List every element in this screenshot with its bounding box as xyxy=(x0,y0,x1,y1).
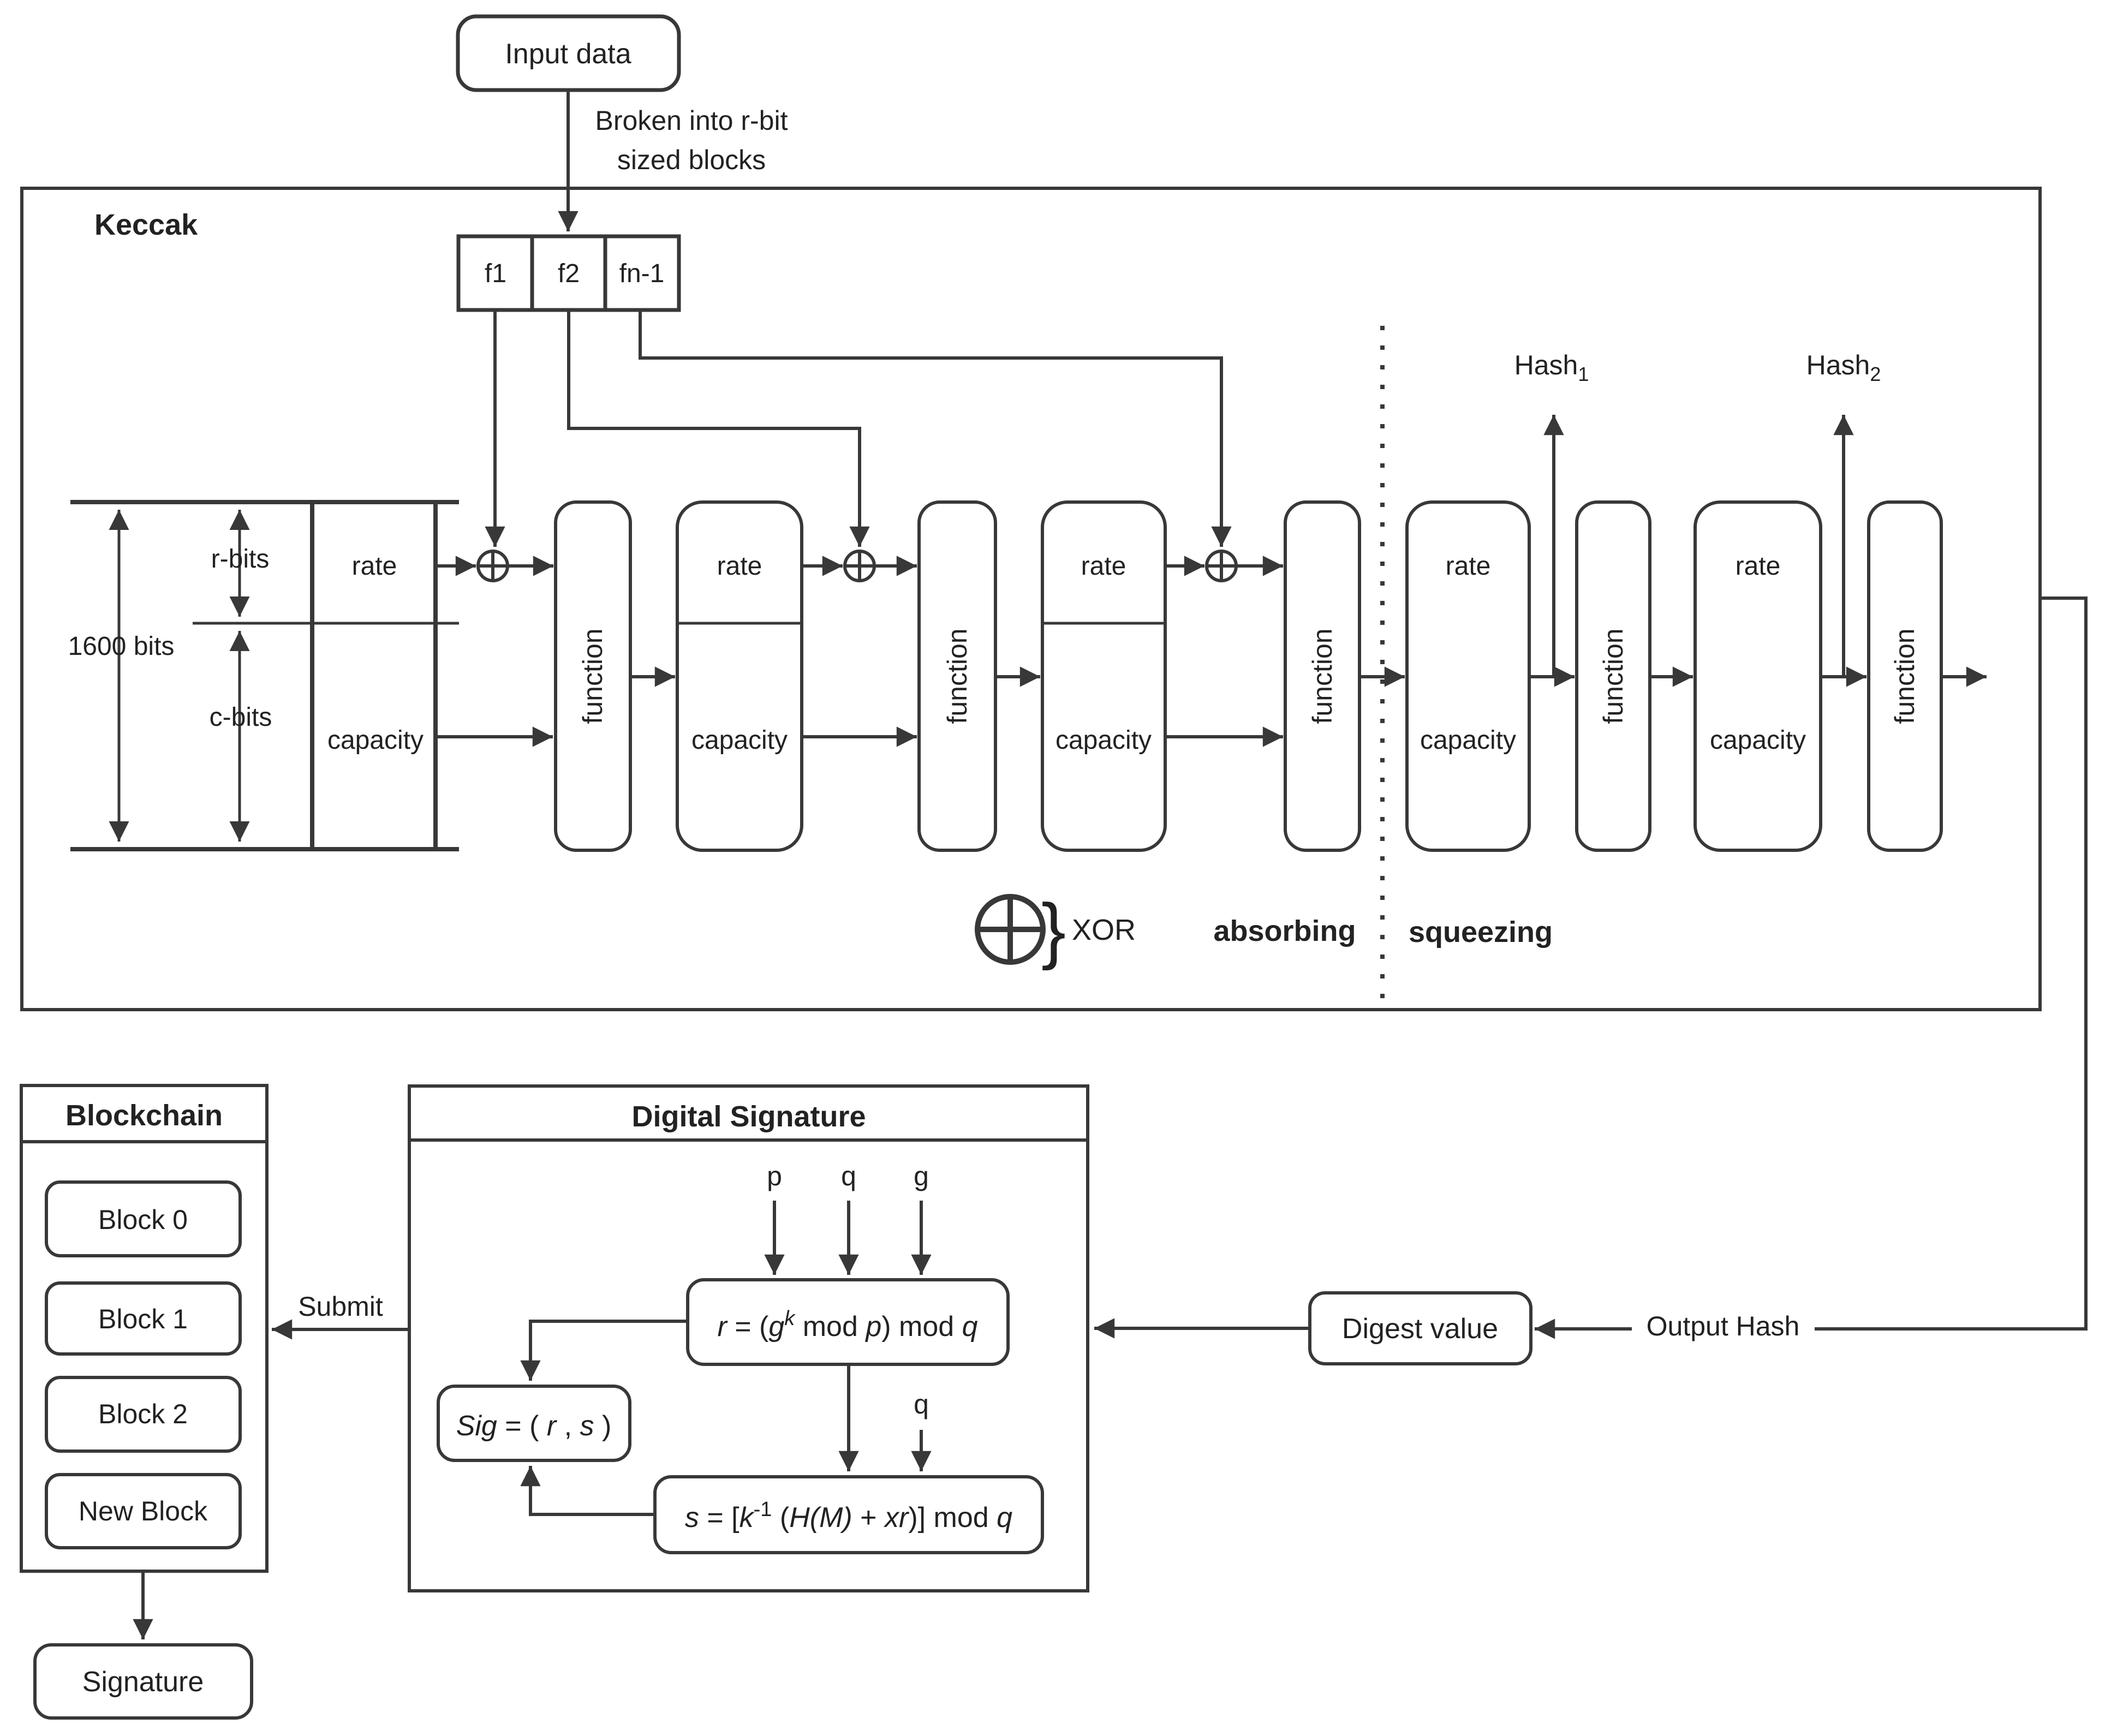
svg-text:function: function xyxy=(1889,628,1920,724)
svg-text:Digital Signature: Digital Signature xyxy=(631,1100,866,1133)
svg-text:function: function xyxy=(1598,628,1629,724)
svg-text:Block 2: Block 2 xyxy=(98,1399,188,1429)
svg-text:f1: f1 xyxy=(485,259,506,288)
svg-text:capacity: capacity xyxy=(1420,726,1516,755)
svg-text:Submit: Submit xyxy=(298,1291,383,1322)
svg-text:p: p xyxy=(767,1161,782,1191)
svg-text:function: function xyxy=(1307,628,1338,724)
svg-text:g: g xyxy=(914,1161,929,1191)
svg-text:rate: rate xyxy=(1446,552,1491,581)
svg-text:Input data: Input data xyxy=(505,38,631,70)
svg-text:XOR: XOR xyxy=(1072,914,1136,946)
svg-text:Block 0: Block 0 xyxy=(98,1204,188,1235)
svg-text:sized blocks: sized blocks xyxy=(617,145,766,175)
svg-text:f2: f2 xyxy=(558,259,580,288)
svg-text:Sig = ( r , s ): Sig = ( r , s ) xyxy=(456,1410,612,1442)
svg-text:rate: rate xyxy=(1736,552,1781,581)
svg-text:Blockchain: Blockchain xyxy=(65,1099,223,1132)
svg-text:rate: rate xyxy=(717,552,762,581)
svg-text:squeezing: squeezing xyxy=(1409,916,1553,948)
svg-text:capacity: capacity xyxy=(691,726,788,755)
svg-text:function: function xyxy=(577,628,608,724)
svg-text:c-bits: c-bits xyxy=(210,703,272,732)
svg-text:rate: rate xyxy=(352,552,397,581)
svg-text:Hash1: Hash1 xyxy=(1514,350,1589,385)
svg-text:function: function xyxy=(942,628,973,724)
svg-text:Hash2: Hash2 xyxy=(1806,350,1881,385)
svg-text:q: q xyxy=(914,1389,929,1419)
svg-text:Signature: Signature xyxy=(82,1666,204,1698)
svg-text:capacity: capacity xyxy=(327,726,424,755)
svg-text:absorbing: absorbing xyxy=(1213,915,1356,947)
svg-text:q: q xyxy=(841,1161,856,1191)
svg-text:r-bits: r-bits xyxy=(211,545,270,574)
svg-text:1600 bits: 1600 bits xyxy=(68,632,175,661)
svg-text:s = [k-1 (H(M) + xr)] mod q: s = [k-1 (H(M) + xr)] mod q xyxy=(685,1498,1012,1534)
svg-text:capacity: capacity xyxy=(1055,726,1152,755)
svg-text:}: } xyxy=(1041,888,1066,971)
svg-text:New Block: New Block xyxy=(79,1496,208,1526)
svg-text:Broken into r-bit: Broken into r-bit xyxy=(595,105,788,136)
svg-text:Output Hash: Output Hash xyxy=(1647,1311,1800,1341)
svg-text:Block 1: Block 1 xyxy=(98,1304,188,1334)
svg-text:rate: rate xyxy=(1081,552,1126,581)
svg-text:Keccak: Keccak xyxy=(94,208,198,241)
svg-text:r = (gk mod p) mod q: r = (gk mod p) mod q xyxy=(717,1307,977,1343)
svg-text:fn-1: fn-1 xyxy=(619,259,665,288)
svg-text:Digest value: Digest value xyxy=(1342,1313,1498,1345)
svg-text:capacity: capacity xyxy=(1710,726,1806,755)
